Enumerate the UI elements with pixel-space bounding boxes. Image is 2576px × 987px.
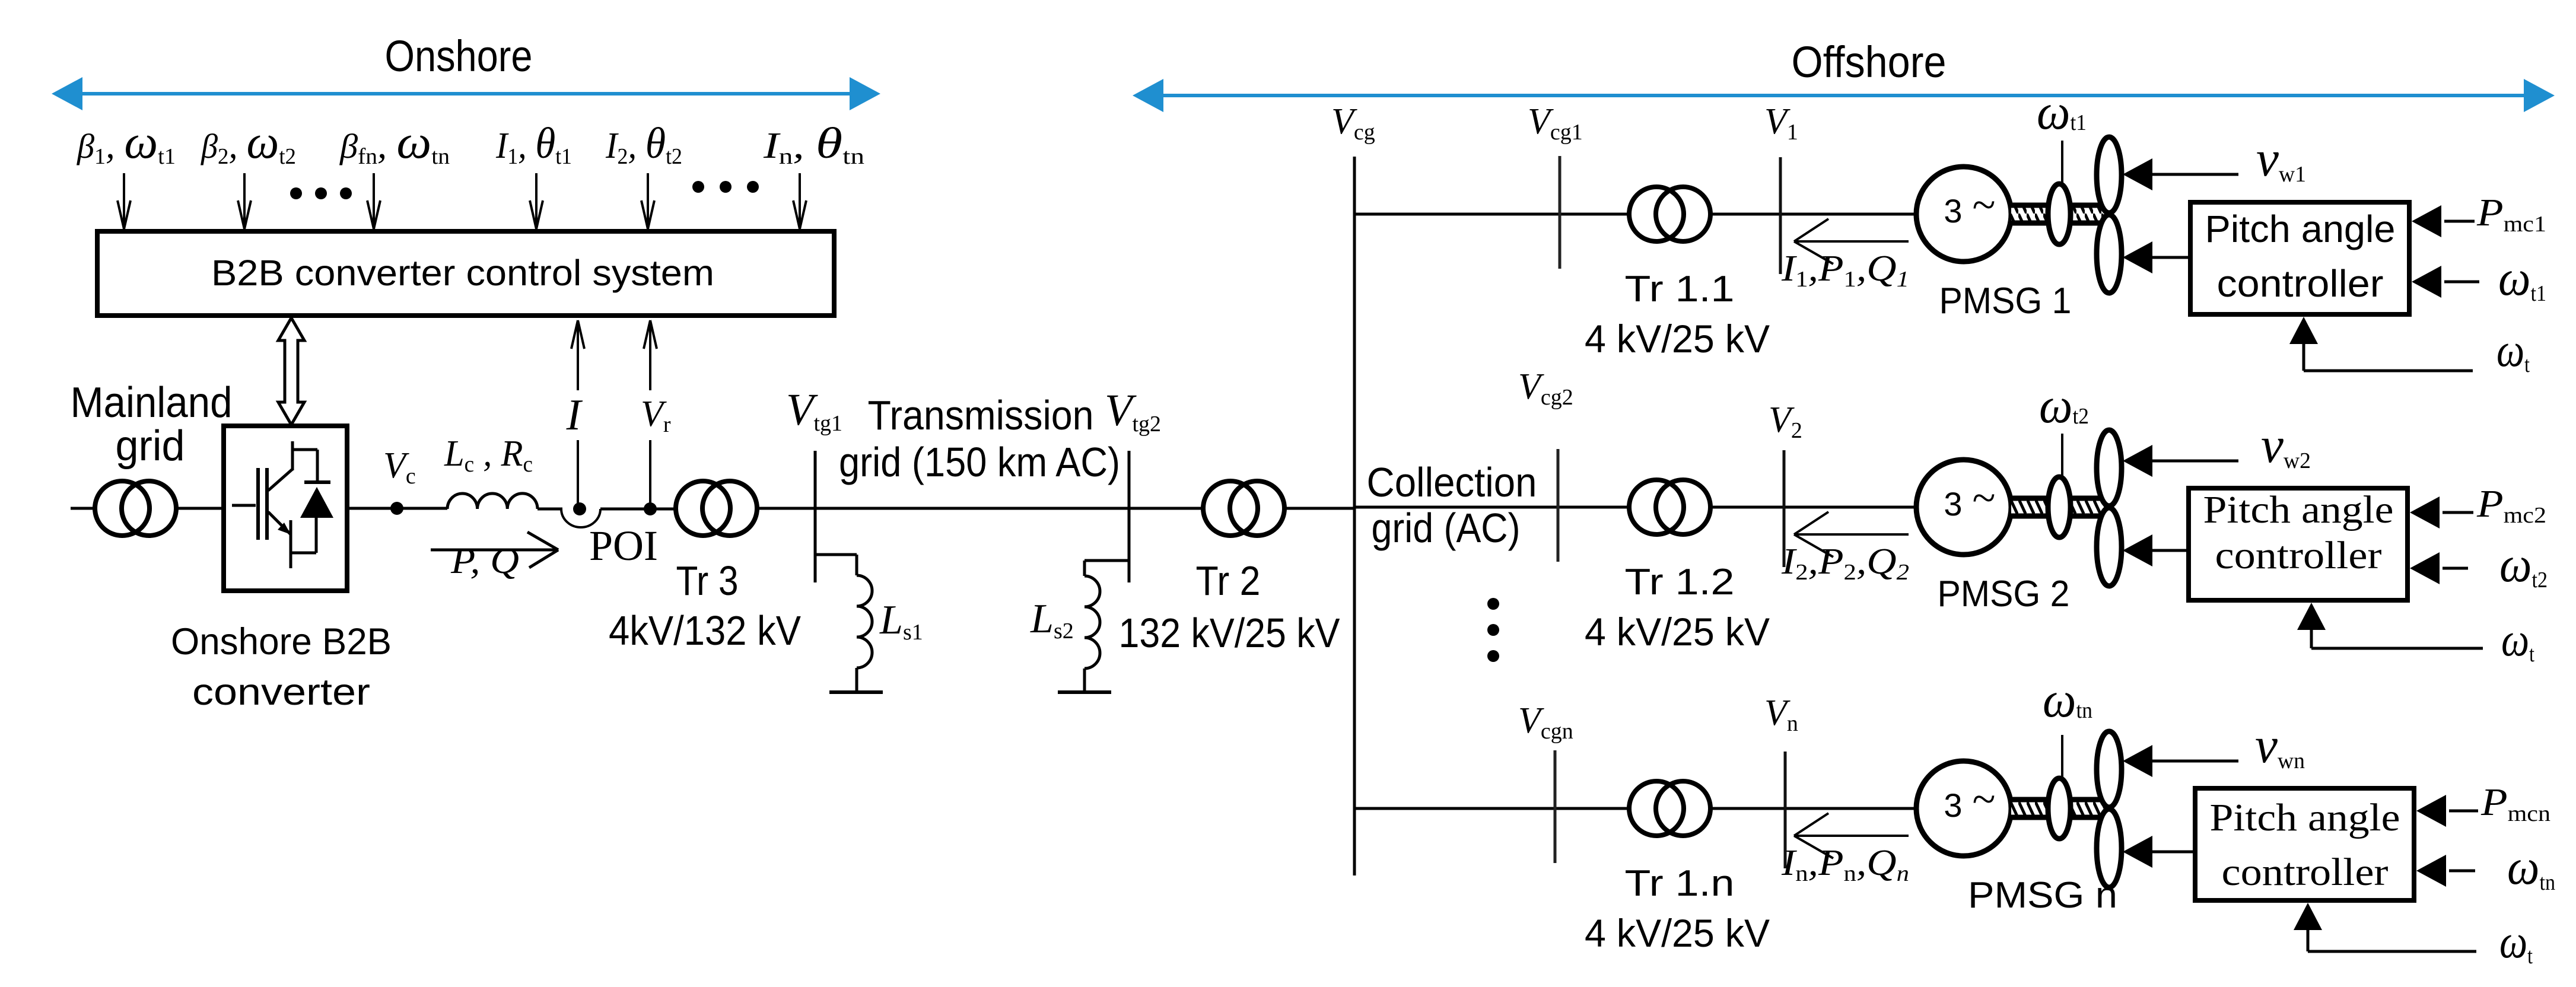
controller box Pitch angle 1 [2190, 202, 2409, 314]
turbine blade top n [2097, 731, 2122, 807]
label I1 theta_t1 [495, 119, 572, 169]
turbine blade bottom n [2097, 809, 2122, 887]
label Vr [641, 394, 671, 437]
turbine blade top 2 [2097, 430, 2122, 506]
blue span arrow Offshore [1133, 79, 2555, 112]
svg-text:POI: POI [589, 522, 658, 569]
turbine hub n [2048, 778, 2071, 839]
label Vcg [1331, 101, 1375, 145]
arrow beta1 from controller [2123, 241, 2188, 273]
ground Ls1 [829, 690, 883, 694]
label V1 [1764, 101, 1798, 145]
arrow P_mc2 [2410, 496, 2473, 528]
ellipsis dots top right [692, 181, 759, 193]
label Tr 1.2 [1625, 562, 1735, 603]
label Vcgn [1518, 701, 1573, 744]
svg-text:P, Q: P, Q [450, 541, 519, 581]
label I1 P1 Q1 [1781, 249, 1909, 292]
bus Vtg1 [814, 451, 817, 582]
transformer Tr2 [1203, 481, 1284, 536]
transformer Tr 1.2 [1629, 480, 1710, 534]
label beta_fn omega_tn [339, 116, 450, 169]
node I tap dot [573, 502, 586, 515]
label P_mc1 [2476, 191, 2546, 237]
svg-text:~: ~ [1973, 775, 1996, 823]
label I [566, 391, 583, 440]
label Ls2 [1030, 596, 1074, 644]
label omega_t2 top [2039, 377, 2089, 434]
label PMSG 2 [1938, 574, 2070, 615]
generator PMSG n circle [1916, 761, 2011, 856]
arrow beta2 from controller [2123, 534, 2186, 566]
turbine blade bottom 2 [2097, 508, 2122, 586]
label Tr 1.2 ratio [1585, 610, 1770, 654]
wire Tr2 to collection bus [1284, 507, 1354, 510]
svg-text:Onshore B2B: Onshore B2B [171, 621, 392, 663]
wire collection bus to Tr 1.2 [1354, 506, 1630, 509]
arrow P Q [431, 532, 558, 568]
bus V1 [1779, 157, 1782, 274]
bus Vcgn [1554, 750, 1557, 863]
svg-text:Pitch angle: Pitch angle [2205, 208, 2396, 250]
bus Vtg2 [1128, 451, 1131, 582]
label 3~ PMSG n [1944, 775, 1995, 824]
B2B converter control system box [97, 231, 834, 316]
label P_mc2 [2476, 482, 2546, 528]
svg-text:converter: converter [192, 671, 370, 713]
label beta2 omega_t2 [201, 116, 296, 169]
arrow omega_t ref n [2294, 903, 2476, 951]
ellipsis dots rows [1487, 598, 1499, 662]
wire collection bus to Tr 1.n [1354, 807, 1630, 810]
input arrow 6 into control box [793, 173, 806, 229]
wire POI to Tr3 [600, 508, 677, 511]
double arrow control-converter [278, 318, 304, 425]
svg-text:~: ~ [1973, 474, 1996, 521]
omega_t2 sense line [2061, 434, 2063, 477]
svg-text:Collection: Collection [1367, 459, 1537, 505]
turbine shaft 2 [2011, 498, 2106, 516]
omega_tn sense line [2061, 735, 2063, 778]
label I2 theta_t2 [605, 119, 682, 169]
label Vcg1 [1528, 101, 1583, 145]
svg-text:4 kV/25 kV: 4 kV/25 kV [1585, 911, 1770, 955]
node Vc dot [390, 502, 403, 515]
bus Vcg1 [1559, 156, 1561, 269]
arrow I2 P2 Q2 [1794, 512, 1909, 557]
ground Ls2 [1058, 690, 1111, 694]
label Lc Rc [444, 434, 533, 477]
label PMSG n [1968, 875, 2117, 916]
shunt inductor Ls2 [1085, 561, 1129, 692]
transformer Tr3 [676, 481, 757, 536]
label Vcg2 [1518, 367, 1573, 410]
svg-text:132 kV/25 kV: 132 kV/25 kV [1119, 610, 1340, 656]
svg-text:4kV/132 kV: 4kV/132 kV [609, 607, 801, 654]
hop arc at POI [561, 509, 600, 527]
arrow P_mcn [2416, 795, 2478, 827]
title Offshore [1792, 37, 1947, 87]
wire Tr3 to Tr2 [757, 507, 1204, 510]
arrow v_w1 [2123, 158, 2238, 190]
label Tr 1.1 ratio [1585, 317, 1770, 361]
label Tr 1.n ratio [1585, 911, 1770, 955]
svg-text:Lc , Rc: Lc , Rc [444, 434, 533, 477]
svg-text:Offshore: Offshore [1792, 37, 1947, 87]
turbine hub 1 [2048, 184, 2071, 244]
label In theta_tn [763, 119, 864, 169]
wire I tap [577, 440, 579, 504]
input arrow 2 into control box [238, 173, 251, 229]
svg-text:PMSG 1: PMSG 1 [1939, 281, 2072, 321]
omega_t1 sense line [2061, 141, 2063, 184]
label POI [589, 522, 658, 569]
svg-text:Transmission: Transmission [868, 392, 1094, 438]
label omega_t ref 2 [2501, 614, 2534, 667]
turbine hub 2 [2048, 477, 2071, 537]
label Tr2 ratio [1119, 610, 1340, 656]
label omega_t1 top [2037, 83, 2087, 140]
shunt inductor Ls1 [815, 555, 872, 692]
label Tr 3 [676, 558, 739, 604]
transformer Tr 1.n [1629, 781, 1710, 836]
label omega_t1 right [2498, 249, 2546, 306]
label Ls1 [879, 597, 923, 645]
svg-text:Tr 1.1: Tr 1.1 [1625, 269, 1735, 310]
svg-text:grid (150 km AC): grid (150 km AC) [839, 439, 1120, 485]
label Tr 2 [1196, 558, 1261, 604]
arrow omega_tn input [2416, 855, 2475, 887]
turbine shaft 1 [2011, 205, 2106, 223]
svg-text:Onshore: Onshore [385, 31, 533, 81]
title Onshore [385, 31, 533, 81]
svg-text:controller: controller [2222, 851, 2389, 894]
svg-text:Pitch angle: Pitch angle [2203, 488, 2394, 531]
label v_wn [2255, 717, 2305, 773]
svg-text:Tr 1.n: Tr 1.n [1625, 863, 1735, 904]
label omega_tn right [2507, 838, 2555, 895]
label Pitch angle controller n [2210, 796, 2400, 894]
svg-text:controller: controller [2217, 262, 2384, 305]
label Mainland grid [71, 379, 233, 470]
arrow Vr to control box [644, 320, 657, 390]
svg-text:Tr 1.2: Tr 1.2 [1625, 562, 1735, 603]
converter box Onshore B2B [224, 426, 347, 591]
arrow In Pn Qn [1794, 813, 1909, 858]
IGBT with diode [232, 441, 333, 568]
bus Vn [1784, 752, 1787, 868]
svg-text:3: 3 [1944, 192, 1962, 230]
label Pitch angle controller 2 [2203, 488, 2394, 577]
B2B converter control system label [211, 253, 714, 293]
label PMSG 1 [1939, 281, 2072, 321]
input arrow 1 into control box [117, 173, 131, 229]
label V2 [1769, 400, 1802, 443]
controller box Pitch angle 2 [2189, 488, 2408, 600]
label In Pn Qn [1781, 843, 1909, 886]
arrow v_wn [2123, 745, 2238, 777]
turbine shaft n [2011, 800, 2106, 817]
arrow betan from controller [2123, 836, 2193, 868]
svg-text:Mainland: Mainland [71, 379, 233, 426]
label P Q [450, 541, 519, 581]
svg-text:4 kV/25 kV: 4 kV/25 kV [1585, 610, 1770, 654]
transformer Tr 1.1 [1629, 187, 1710, 241]
svg-text:3: 3 [1944, 787, 1962, 824]
blue span arrow Onshore [52, 77, 880, 110]
label Pitch angle controller 1 [2205, 208, 2396, 305]
input arrow 4 into control box [530, 173, 543, 229]
svg-text:Tr 3: Tr 3 [676, 558, 739, 604]
svg-text:Tr 2: Tr 2 [1196, 558, 1261, 604]
wire Tr 1.1 to PMSG 1 [1710, 213, 1917, 216]
bus collection grid [1353, 157, 1356, 875]
wire inductor to POI [538, 508, 562, 511]
bus V2 [1783, 450, 1786, 567]
label Vtg1 [786, 385, 842, 436]
svg-text:PMSG n: PMSG n [1968, 875, 2117, 916]
svg-text:grid (AC): grid (AC) [1372, 505, 1521, 551]
label Tr 1.1 [1625, 269, 1735, 310]
label omega_t ref n [2499, 916, 2533, 969]
label Vn [1764, 693, 1798, 736]
wire Tr 1.n to PMSG n [1710, 807, 1917, 810]
generator PMSG 1 circle [1916, 167, 2011, 262]
node Vr tap dot [644, 502, 657, 515]
svg-text:~: ~ [1973, 181, 1996, 228]
arrow omega_t ref 2 [2297, 603, 2483, 648]
arrow I to control box [571, 320, 584, 390]
arrow omega_t1 input [2412, 266, 2479, 298]
label omega_tn top [2043, 671, 2092, 728]
label Transmission grid [839, 392, 1120, 485]
wire mainland stub [71, 507, 96, 510]
label v_w1 [2256, 130, 2306, 187]
wire mainland to converter [177, 507, 224, 510]
inductor Lc Rc [447, 493, 538, 509]
label v_w2 [2261, 416, 2311, 473]
source mainland grid [95, 481, 176, 536]
svg-text:4 kV/25 kV: 4 kV/25 kV [1585, 317, 1770, 361]
label Tr 1.n [1625, 863, 1735, 904]
turbine blade bottom 1 [2097, 215, 2122, 293]
wire Tr 1.2 to PMSG 2 [1710, 506, 1917, 509]
label I2 P2 Q2 [1781, 542, 1909, 585]
svg-text:3: 3 [1944, 485, 1962, 523]
svg-text:grid: grid [116, 422, 185, 470]
wire collection bus to Tr 1.1 [1354, 213, 1630, 216]
label Tr3 ratio [609, 607, 801, 654]
label P_mcn [2480, 781, 2550, 826]
wire Vr tap [649, 440, 651, 504]
svg-text:Pitch angle: Pitch angle [2210, 796, 2400, 839]
label beta1 omega_t1 [77, 116, 176, 169]
label 3~ PMSG 2 [1944, 474, 1995, 523]
svg-text:PMSG 2: PMSG 2 [1938, 574, 2070, 615]
label Onshore B2B converter [171, 621, 392, 713]
arrow omega_t2 input [2410, 552, 2468, 584]
arrow I1 P1 Q1 [1794, 219, 1909, 264]
svg-text:controller: controller [2215, 534, 2382, 577]
label omega_t ref 1 [2497, 324, 2530, 377]
label omega_t2 right [2499, 536, 2548, 593]
arrow v_w2 [2123, 445, 2238, 477]
ellipsis dots top left [290, 187, 352, 199]
controller box Pitch angle n [2195, 788, 2414, 900]
label 3~ PMSG 1 [1944, 181, 1995, 230]
arrow omega_t ref 1 [2289, 317, 2473, 371]
wire converter to inductor [347, 507, 447, 510]
svg-text:B2B converter control system: B2B converter control system [211, 253, 714, 293]
generator PMSG 2 circle [1916, 460, 2011, 555]
turbine blade top 1 [2097, 137, 2122, 213]
label Vtg2 [1105, 386, 1161, 437]
label Collection grid [1367, 459, 1537, 551]
input arrow 3 into control box [367, 173, 380, 229]
svg-text:I: I [566, 391, 583, 440]
arrow P_mc1 [2412, 205, 2475, 237]
bus Vcg2 [1557, 449, 1560, 562]
label Vc [383, 445, 416, 489]
input arrow 5 into control box [641, 173, 654, 229]
